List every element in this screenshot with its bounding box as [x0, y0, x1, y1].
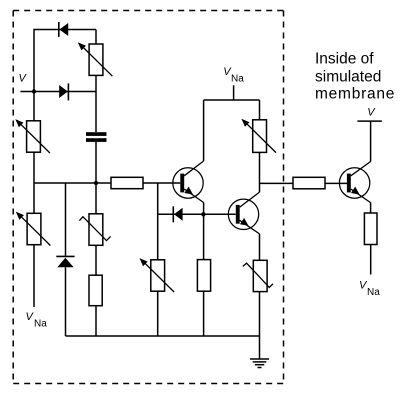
junction on bus — [94, 181, 98, 185]
wire — [259, 100, 261, 120]
label: Inside of simulated membrane — [315, 51, 395, 103]
transistor Q3 — [339, 162, 370, 203]
wire top loop — [34, 30, 96, 92]
wire — [203, 291, 205, 336]
diode D3 — [173, 206, 182, 222]
svg-text:Na: Na — [231, 74, 244, 85]
variable resistor VR5 (g_Na) — [241, 119, 276, 153]
wire mid column — [157, 183, 159, 336]
wire V input — [20, 91, 96, 93]
V supply rail bar — [357, 120, 382, 122]
bus wire (node V to transistor) — [34, 182, 111, 184]
resistor R4 — [197, 260, 210, 292]
wire — [370, 245, 372, 275]
variable resistor VR6 (hook style) — [79, 214, 110, 246]
svg-text:V: V — [367, 107, 376, 119]
svg-text:Na: Na — [34, 319, 47, 330]
wire Q1 collector — [203, 100, 205, 161]
wire — [325, 182, 347, 184]
diode D2 — [59, 83, 68, 100]
diode D1 — [59, 22, 68, 37]
wire Q2 emitter — [259, 234, 261, 260]
wire — [95, 306, 97, 336]
V_Na supply rail — [204, 99, 260, 101]
junction at V node — [32, 89, 36, 93]
wire — [95, 75, 97, 132]
dashed membrane boundary — [13, 11, 283, 384]
wire diode leg column — [65, 183, 67, 336]
wire to diode D3 — [158, 213, 236, 215]
transistor Q2 — [228, 192, 259, 234]
variable resistor VR1 — [78, 42, 113, 76]
resistor R1 — [111, 177, 143, 188]
wire — [143, 182, 180, 184]
svg-text:Na: Na — [367, 287, 380, 298]
wire Q1 emitter down — [203, 203, 205, 260]
junction at D3 / Q1 emitter — [201, 212, 205, 216]
variable resistor VR4 — [140, 258, 175, 292]
svg-text:simulated: simulated — [315, 68, 381, 85]
svg-text:Inside of: Inside of — [315, 51, 374, 68]
resistor R2 — [293, 177, 325, 189]
wire output node to border — [260, 182, 294, 184]
svg-text:membrane: membrane — [315, 85, 395, 102]
transistor Q1 — [173, 161, 204, 203]
resistor R5 — [364, 213, 377, 245]
wire left column — [33, 92, 35, 308]
diode D4 (pointing up) — [56, 256, 74, 267]
wire Q3 emitter — [370, 203, 372, 213]
resistor R3 — [89, 275, 102, 306]
ground — [250, 359, 269, 368]
variable resistor VR3 — [16, 212, 51, 246]
variable resistor VR7 (hook style) — [243, 260, 273, 291]
wire — [95, 142, 97, 214]
svg-text:V: V — [19, 73, 28, 85]
wire V_Na tap — [233, 85, 235, 100]
wire — [95, 245, 97, 275]
capacitor C1 (membrane capacitance) — [86, 132, 107, 142]
wire to ground — [259, 292, 261, 359]
wire g_Na to node — [259, 152, 261, 192]
wire V rail to Q3 — [370, 121, 372, 161]
variable resistor VR2 — [15, 119, 50, 153]
wire — [95, 30, 97, 45]
bottom bus wire — [66, 335, 260, 337]
